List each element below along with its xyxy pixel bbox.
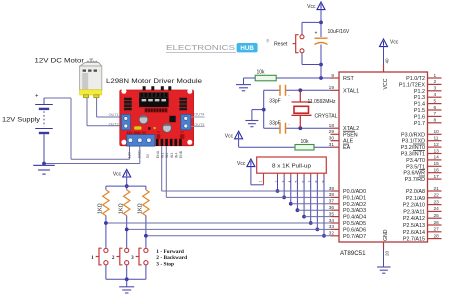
svg-text:4: 4 [288,181,292,183]
svg-text:GND: GND [138,150,142,158]
svg-text:8: 8 [434,118,437,124]
svg-text:3: 3 [131,255,134,261]
svg-text:P3.7/RD: P3.7/RD [405,177,425,183]
svg-text:8 x 1K Pull-up: 8 x 1K Pull-up [272,163,311,169]
svg-text:P1.0/T2: P1.0/T2 [406,76,425,82]
svg-text:P2.2/A10: P2.2/A10 [403,203,425,209]
svg-text:24: 24 [434,206,440,212]
svg-text:P1.2: P1.2 [414,89,425,95]
svg-text:12V GND 5V: 12V GND 5V [127,131,147,135]
svg-text:22: 22 [434,193,440,199]
svg-text:P0.4/AD4: P0.4/AD4 [343,215,366,221]
svg-text:Vcc: Vcc [237,161,246,167]
svg-text:10uF/16V: 10uF/16V [328,29,350,35]
svg-text:XTAL1: XTAL1 [343,88,359,94]
svg-text:17: 17 [434,174,440,180]
svg-text:7: 7 [434,111,437,117]
svg-text:21: 21 [434,186,440,192]
svg-text:P2.7/A15: P2.7/A15 [403,237,425,243]
svg-text:11: 11 [434,136,439,142]
svg-text:P1.5: P1.5 [414,108,425,114]
svg-text:P0.5/AD5: P0.5/AD5 [343,221,366,227]
svg-text:40: 40 [384,58,389,64]
svg-text:P2.0/A8: P2.0/A8 [406,189,425,195]
svg-text:8: 8 [315,181,319,183]
svg-text:2: 2 [275,181,279,183]
svg-text:10k: 10k [301,139,310,145]
svg-text:P2.1/A9: P2.1/A9 [406,196,425,202]
svg-text:HUB: HUB [240,45,254,52]
svg-text:P1.6: P1.6 [414,114,425,120]
svg-text:10: 10 [434,129,440,135]
svg-text:P2.5/A13: P2.5/A13 [403,223,425,229]
svg-text:IN4: IN4 [174,153,178,159]
svg-text:Reset: Reset [274,41,288,47]
svg-text:12V: 12V [128,151,132,158]
svg-text:5: 5 [434,98,437,104]
svg-text:15: 15 [434,161,440,167]
svg-text:1KΩ: 1KΩ [119,203,125,214]
svg-text:5V: 5V [180,130,184,134]
svg-text:RST: RST [343,76,354,82]
svg-text:ENA: ENA [156,150,160,158]
svg-text:13: 13 [434,148,440,154]
svg-text:+: + [35,93,39,99]
svg-text:26: 26 [434,220,440,226]
svg-text:16: 16 [434,168,440,174]
svg-text:9: 9 [331,73,334,79]
svg-text:VCC: VCC [383,78,389,89]
svg-text:P3.0/RXD: P3.0/RXD [401,132,425,138]
svg-text:OUT3: OUT3 [194,123,204,127]
svg-text:2: 2 [112,255,115,261]
svg-text:3 - Stop: 3 - Stop [156,262,174,268]
svg-text:6: 6 [301,181,305,183]
svg-text:28: 28 [434,233,440,239]
svg-text:1: 1 [91,255,94,261]
svg-text:L298N Motor Driver Module: L298N Motor Driver Module [106,78,202,85]
svg-text:OUT1: OUT1 [109,113,119,117]
svg-text:12: 12 [434,142,440,148]
svg-text:9: 9 [321,181,325,183]
svg-text:P2.3/A11: P2.3/A11 [403,209,425,215]
svg-text:OUT4: OUT4 [194,113,204,117]
svg-text:P0.3/AD3: P0.3/AD3 [343,208,366,214]
svg-text:−: − [288,94,290,98]
svg-text:−: − [288,123,290,127]
svg-text:33pF: 33pF [269,98,280,104]
svg-text:20: 20 [385,250,390,256]
svg-text:1KΩ: 1KΩ [138,203,144,214]
svg-text:1KΩ: 1KΩ [98,203,104,214]
svg-text:P3.3/INT1: P3.3/INT1 [401,152,425,158]
svg-text:IN2: IN2 [165,153,169,159]
svg-text:5: 5 [295,181,299,183]
svg-text:12V DC Motor: 12V DC Motor [35,58,86,65]
svg-text:Vcc: Vcc [225,133,234,139]
svg-text:25: 25 [434,213,440,219]
svg-text:1 - Forward: 1 - Forward [156,249,184,255]
svg-text:P1.3: P1.3 [414,95,425,101]
svg-text:2 - Backward: 2 - Backward [156,255,187,261]
svg-text:IN3: IN3 [170,153,174,159]
svg-text:14: 14 [434,155,440,161]
svg-text:ELECTRONICS: ELECTRONICS [166,43,235,52]
svg-text:3: 3 [434,86,437,92]
svg-text:ENB: ENB [179,150,183,158]
svg-text:1: 1 [258,181,262,183]
svg-text:P0.0/AD0: P0.0/AD0 [343,189,366,195]
svg-text:10k: 10k [257,70,266,76]
svg-text:P1.7: P1.7 [414,121,425,127]
svg-text:1: 1 [434,73,437,79]
svg-text:AT89C51: AT89C51 [340,251,366,257]
svg-text:4: 4 [434,92,437,98]
svg-text:P2.4/A12: P2.4/A12 [403,216,425,222]
svg-text:5V: 5V [157,130,161,134]
svg-text:P1.4: P1.4 [414,102,425,108]
svg-text:27: 27 [434,227,440,233]
svg-text:5V: 5V [146,153,150,158]
svg-text:P1.1/T2EX: P1.1/T2EX [399,82,425,88]
svg-text:IN1: IN1 [161,153,165,159]
svg-text:P0.2/AD2: P0.2/AD2 [343,202,366,208]
svg-text:P3.4/T0: P3.4/T0 [406,158,425,164]
svg-text:EA: EA [343,145,351,151]
svg-text:+: + [315,31,318,37]
svg-text:Vcc: Vcc [307,4,316,10]
svg-text:33pF: 33pF [269,120,280,126]
svg-text:CRYSTAL: CRYSTAL [315,114,338,120]
svg-text:OUT2: OUT2 [109,123,119,127]
svg-text:2: 2 [434,79,437,85]
svg-text:3: 3 [281,181,285,183]
svg-text:29: 29 [329,129,335,135]
svg-text:PSEN: PSEN [343,132,358,138]
svg-text:23: 23 [434,199,440,205]
svg-text:P0.6/AD6: P0.6/AD6 [343,227,366,233]
svg-text:Vcc: Vcc [113,172,122,178]
svg-text:11.0592MHz: 11.0592MHz [308,99,336,105]
svg-text:GND: GND [383,229,389,241]
svg-text:12V Supply: 12V Supply [2,117,41,124]
svg-text:P0.1/AD1: P0.1/AD1 [343,195,366,201]
svg-text:Vcc: Vcc [390,40,399,46]
svg-text:P0.7/AD7: P0.7/AD7 [343,234,366,240]
svg-text:30: 30 [329,136,335,142]
svg-text:6: 6 [434,105,437,111]
svg-text:P2.6/A14: P2.6/A14 [403,230,425,236]
svg-text:7: 7 [308,181,312,183]
